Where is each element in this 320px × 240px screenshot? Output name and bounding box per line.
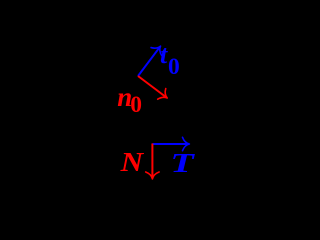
label n0 <box>117 82 142 118</box>
svg-text:0: 0 <box>168 54 180 80</box>
vector N (red, vertical down) <box>151 144 153 179</box>
vector T (blue, horizontal) <box>152 143 188 145</box>
svg-text:N: N <box>119 147 144 177</box>
label t0 <box>160 40 180 80</box>
svg-text:T: T <box>170 148 195 178</box>
svg-text:t: t <box>160 40 168 69</box>
vector n0 (red normal arrow) <box>138 76 167 98</box>
svg-text:0: 0 <box>130 92 142 118</box>
vector t0 (blue tangent arrow) <box>138 47 160 76</box>
